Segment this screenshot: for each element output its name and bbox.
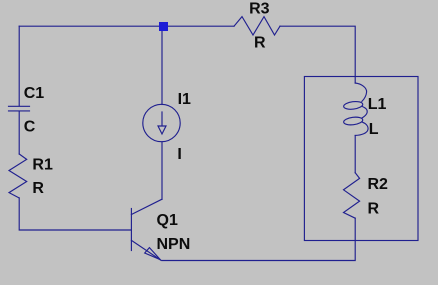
inductor L1 middle arc (362, 107, 367, 118)
svg-text:C1: C1 (24, 85, 45, 102)
wire emitter bottom rail (162, 218, 355, 260)
svg-text:R3: R3 (249, 1, 270, 18)
svg-text:C: C (24, 119, 36, 136)
current source I1 (143, 104, 180, 141)
svg-text:R: R (254, 35, 266, 52)
svg-text:L: L (369, 121, 379, 138)
node junction square (159, 22, 168, 31)
inductor L1 loop 1 (343, 101, 363, 111)
transistor Q1 base bar (130, 209, 132, 251)
inductor L1 top arc (355, 83, 366, 101)
wire L1 to R2 (354, 136, 356, 173)
wire junction to current source (161, 31, 163, 105)
transistor Q1 emitter arrow (145, 248, 161, 260)
resistor R1 (9, 154, 27, 198)
wire cap to R1 (18, 112, 20, 155)
transistor Q1 collector (131, 199, 162, 214)
svg-text:R2: R2 (368, 176, 389, 193)
svg-text:I: I (177, 146, 181, 163)
svg-text:R: R (368, 201, 380, 218)
svg-text:L1: L1 (368, 96, 387, 113)
svg-text:I1: I1 (178, 91, 191, 108)
subcircuit box (304, 77, 418, 241)
wire top rail (19, 25, 234, 27)
wire left rail top (18, 26, 20, 106)
svg-text:NPN: NPN (157, 236, 191, 253)
svg-text:Q1: Q1 (157, 212, 178, 229)
wire R1 to corner and base (19, 198, 131, 230)
svg-text:R1: R1 (32, 157, 53, 174)
current source arrow (158, 112, 166, 134)
inductor L1 bottom arc (355, 122, 368, 135)
wire current source to collector (161, 142, 163, 199)
capacitor C1 (9, 106, 30, 111)
resistor R3 (234, 17, 280, 35)
svg-text:R: R (32, 180, 44, 197)
wire R3 to top-right corner (280, 26, 355, 83)
transistor Q1 emitter (131, 240, 161, 260)
inductor L1 loop 2 (343, 116, 363, 126)
resistor R2 (344, 173, 360, 219)
